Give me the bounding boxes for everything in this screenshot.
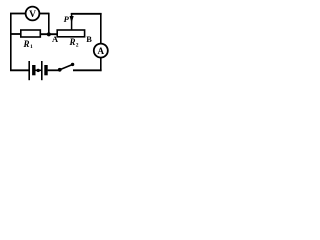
switch lever end dot bbox=[71, 63, 74, 66]
battery cell 2 short plate bbox=[44, 65, 47, 75]
svg-text:A: A bbox=[52, 35, 58, 44]
svg-text:P: P bbox=[64, 14, 70, 24]
svg-text:B: B bbox=[86, 35, 92, 44]
svg-text:1: 1 bbox=[30, 44, 33, 50]
voltmeter V bbox=[26, 7, 40, 21]
slider arrowhead bbox=[70, 16, 74, 23]
wire top-left to voltmeter bbox=[10, 13, 26, 15]
rheostat R2 bbox=[57, 30, 84, 37]
wire switch to right corner bbox=[73, 69, 102, 71]
slider P wire bbox=[71, 13, 73, 30]
wire main horizontal R1 to R2 bbox=[40, 33, 58, 35]
battery cell 2 long plate bbox=[41, 61, 43, 80]
node junction dot bbox=[47, 32, 51, 36]
wire ammeter bottom vertical bbox=[100, 58, 102, 72]
switch left terminal dot bbox=[58, 68, 62, 72]
svg-text:R: R bbox=[23, 39, 30, 49]
wire between cells bbox=[35, 69, 41, 71]
wire right vertical to ammeter bbox=[100, 13, 102, 44]
wire right branch vertical bbox=[48, 13, 50, 35]
node dot between cells bbox=[37, 69, 40, 72]
wire top-right horizontal bbox=[71, 13, 102, 15]
ammeter A bbox=[94, 44, 108, 58]
switch lever bbox=[60, 64, 73, 69]
wire voltmeter to right branch bbox=[40, 13, 49, 15]
svg-text:V: V bbox=[29, 10, 36, 20]
resistor R1 bbox=[21, 30, 41, 37]
wire main horizontal left of R1 bbox=[10, 33, 22, 35]
wire battery to switch bbox=[48, 69, 59, 71]
wire bottom left bbox=[10, 69, 29, 71]
battery cell 1 short plate bbox=[32, 65, 35, 75]
svg-text:R: R bbox=[69, 37, 76, 47]
wire left vertical bbox=[10, 14, 12, 71]
svg-text:2: 2 bbox=[76, 42, 79, 48]
battery cell 1 long plate bbox=[28, 61, 30, 80]
svg-text:A: A bbox=[98, 46, 105, 56]
